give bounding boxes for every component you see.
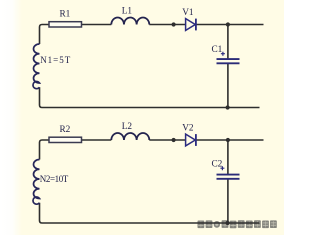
svg-text:R1: R1: [59, 10, 70, 20]
svg-text:R2: R2: [59, 125, 70, 135]
svg-text:N1=5T: N1=5T: [40, 55, 70, 65]
svg-text:N2=10T: N2=10T: [40, 174, 69, 184]
svg-text:L1: L1: [122, 7, 133, 17]
svg-text:V1: V1: [182, 8, 194, 18]
svg-text:L2: L2: [122, 122, 133, 132]
svg-text:V2: V2: [182, 123, 194, 133]
